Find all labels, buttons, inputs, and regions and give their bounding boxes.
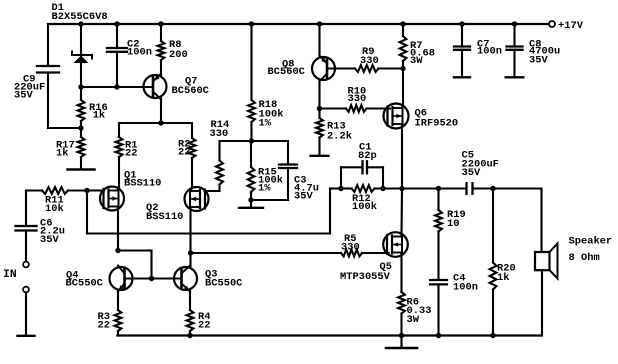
svg-text:+17V: +17V [558,20,584,32]
svg-text:10k: 10k [45,203,64,215]
svg-text:22: 22 [125,147,137,159]
svg-text:330: 330 [360,55,379,67]
svg-text:330: 330 [210,128,229,140]
svg-text:IRF9520: IRF9520 [415,117,459,129]
svg-text:1%: 1% [259,117,272,129]
svg-text:82p: 82p [358,150,377,162]
svg-text:330: 330 [341,241,360,253]
svg-text:1k: 1k [93,110,105,122]
svg-text:BC550C: BC550C [66,277,103,289]
svg-text:IN: IN [3,269,17,281]
svg-text:22: 22 [178,146,190,158]
svg-text:8 Ohm: 8 Ohm [569,252,600,264]
svg-text:MTP3055V: MTP3055V [340,271,391,283]
svg-text:100n: 100n [127,46,152,58]
svg-text:BSS110: BSS110 [146,211,183,223]
svg-text:35V: 35V [40,234,59,246]
svg-text:10: 10 [447,218,459,230]
svg-text:BC560C: BC560C [268,66,305,78]
svg-text:2.2k: 2.2k [327,130,352,142]
svg-text:BC560C: BC560C [172,85,209,97]
svg-text:1k: 1k [497,272,509,284]
svg-text:100k: 100k [352,201,377,213]
svg-text:22: 22 [198,319,210,331]
svg-text:B2X55C6V8: B2X55C6V8 [52,11,108,23]
svg-text:35V: 35V [14,89,33,101]
svg-text:Speaker: Speaker [569,235,613,247]
svg-text:22: 22 [98,319,110,331]
svg-text:1%: 1% [258,182,271,194]
svg-text:100n: 100n [453,281,478,293]
svg-text:200: 200 [169,49,188,61]
svg-text:35V: 35V [294,190,313,202]
svg-text:35V: 35V [462,167,481,179]
svg-text:100n: 100n [477,46,502,58]
svg-text:BC550C: BC550C [205,277,242,289]
svg-text:3W: 3W [407,314,420,326]
svg-text:3W: 3W [410,55,423,67]
svg-text:35V: 35V [529,54,548,66]
svg-text:330: 330 [348,93,367,105]
svg-text:BSS110: BSS110 [124,177,161,189]
svg-text:1k: 1k [56,147,68,159]
